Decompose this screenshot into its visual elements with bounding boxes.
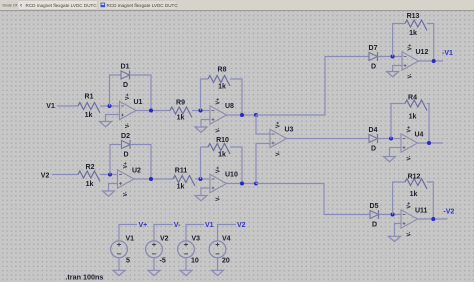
svg-text:V-: V- bbox=[408, 73, 414, 78]
op-amp U12 bbox=[402, 44, 428, 79]
wire D2 cathode down to U2 output bbox=[130, 145, 151, 180]
wire D4 cathode to U4 inverting input bbox=[378, 138, 402, 140]
svg-text:1k: 1k bbox=[177, 115, 185, 122]
op-amp U1 bbox=[120, 94, 143, 129]
junction node U8 summing node bbox=[199, 109, 203, 113]
svg-text:V1: V1 bbox=[46, 103, 55, 110]
op-amp U8 bbox=[210, 98, 234, 133]
svg-text:V1: V1 bbox=[205, 222, 214, 229]
junction node U4 summing node bbox=[389, 137, 393, 141]
svg-text:RCD magnet flexgate LVDC DUTC: RCD magnet flexgate LVDC DUTC bbox=[26, 3, 98, 8]
svg-text:5: 5 bbox=[126, 258, 130, 265]
wire V1 input to R1 bbox=[57, 105, 78, 107]
wire R13 to U12 output node bbox=[427, 24, 434, 62]
tab 2: RCD magnet flexgate LVDC DUTC bbox=[99, 1, 179, 10]
wire R2 to U2 inverting input bbox=[100, 174, 118, 176]
svg-text:R8: R8 bbox=[218, 67, 227, 74]
svg-text:V+: V+ bbox=[407, 202, 413, 209]
svg-text:D4: D4 bbox=[369, 127, 378, 134]
svg-text:.tran 100ns: .tran 100ns bbox=[65, 272, 103, 281]
svg-text:Diode OP: Diode OP bbox=[3, 3, 19, 7]
svg-text:R10: R10 bbox=[216, 137, 229, 144]
svg-text:V+: V+ bbox=[407, 126, 413, 133]
wire V2 source to ground bbox=[153, 258, 155, 271]
svg-text:U11: U11 bbox=[415, 208, 428, 215]
svg-text:R4: R4 bbox=[408, 95, 417, 102]
svg-text:‹: ‹ bbox=[20, 2, 22, 9]
junction node U12 summing node bbox=[391, 55, 395, 59]
ground at U11 input bbox=[389, 236, 401, 241]
wire U2 non-inverting input to ground bbox=[109, 184, 118, 192]
svg-text:R11: R11 bbox=[175, 168, 188, 175]
wire summing node up to D2 anode bbox=[110, 145, 122, 175]
svg-text:1k: 1k bbox=[85, 112, 93, 119]
junction node U11 summing node bbox=[391, 213, 395, 217]
junction node U10 output node bbox=[240, 182, 244, 186]
diode D4 (D) bbox=[369, 127, 378, 153]
diode D7 (D) bbox=[369, 45, 378, 71]
wire D5 cathode to U11 inverting input bbox=[379, 214, 402, 216]
junction node U10 summing node bbox=[199, 177, 203, 181]
resistor R1 (1k) bbox=[78, 94, 100, 120]
svg-text:-5: -5 bbox=[160, 258, 166, 265]
wire U1 non-inverting input to ground bbox=[106, 115, 120, 122]
svg-text:R9: R9 bbox=[176, 100, 185, 107]
op-amp U3 bbox=[270, 122, 294, 157]
junction node U10 output branch bbox=[254, 182, 258, 186]
svg-text:D: D bbox=[371, 146, 376, 153]
svg-text:U10: U10 bbox=[225, 172, 238, 179]
wire V4 source to V2 label bbox=[218, 225, 237, 241]
wire D7 cathode to U12 inverting input bbox=[378, 56, 403, 58]
ground at U2 input bbox=[103, 191, 115, 196]
svg-text:V+: V+ bbox=[123, 162, 129, 169]
resistor R11 (1k) bbox=[173, 168, 195, 191]
wire V1 source to V+ label bbox=[119, 225, 137, 241]
svg-text:1k: 1k bbox=[218, 152, 226, 159]
wire U2 output to R11 bbox=[134, 178, 173, 180]
svg-text:20: 20 bbox=[222, 258, 230, 265]
svg-text:1k: 1k bbox=[409, 30, 417, 37]
wire U8 output to D7 anode bbox=[256, 57, 369, 116]
junction node U11 output node bbox=[431, 217, 435, 221]
svg-text:D: D bbox=[123, 82, 128, 89]
voltage source V1 (5V) bbox=[111, 235, 135, 264]
voltage source V2 (-5V) bbox=[146, 235, 169, 264]
svg-text:U12: U12 bbox=[416, 49, 429, 56]
ground under source V2 bbox=[148, 270, 160, 275]
wire U3 output to D4 anode bbox=[287, 138, 370, 140]
svg-text:D: D bbox=[372, 222, 377, 229]
wire U10 non-inverting input to ground bbox=[201, 188, 210, 196]
wire U10 output bbox=[227, 183, 257, 185]
junction node U1 summing node bbox=[108, 104, 112, 108]
resistor R2 (1k) bbox=[78, 164, 100, 188]
ground at U8 input bbox=[195, 127, 207, 132]
svg-text:V+: V+ bbox=[276, 122, 282, 129]
wire U11 output bbox=[418, 218, 448, 220]
junction node U8 output node bbox=[240, 113, 244, 117]
svg-text:V-: V- bbox=[407, 231, 413, 236]
junction node U12 output node bbox=[432, 59, 436, 63]
diode D1 (D) bbox=[121, 64, 130, 90]
svg-text:V-: V- bbox=[407, 155, 413, 160]
wire V1 source to ground bbox=[118, 258, 120, 271]
svg-text:1k: 1k bbox=[86, 181, 94, 188]
svg-text:10: 10 bbox=[191, 258, 199, 265]
ground at U1 input bbox=[100, 122, 112, 127]
svg-text:U2: U2 bbox=[132, 168, 141, 175]
wire U12 non-inverting input to ground bbox=[393, 66, 402, 72]
wire U4 non-inverting input to ground bbox=[390, 148, 402, 157]
svg-text:1k: 1k bbox=[177, 184, 185, 191]
junction node U8 output branch bbox=[254, 113, 258, 117]
svg-text:D5: D5 bbox=[370, 203, 379, 210]
svg-text:V1: V1 bbox=[126, 235, 135, 242]
svg-text:V+: V+ bbox=[139, 222, 148, 229]
wire V4 source to ground bbox=[217, 258, 219, 271]
ground under source V3 bbox=[180, 270, 192, 275]
resistor R12 (1k) bbox=[405, 174, 427, 199]
svg-text:D1: D1 bbox=[121, 64, 130, 71]
wire R9 to U8 inverting input bbox=[192, 110, 210, 112]
svg-text:D2: D2 bbox=[121, 133, 130, 140]
svg-text:V2: V2 bbox=[41, 173, 50, 180]
svg-text:U4: U4 bbox=[415, 132, 424, 139]
wire U8 output bbox=[227, 114, 257, 116]
svg-text:U8: U8 bbox=[225, 103, 234, 110]
wire R1 to U1 inverting input bbox=[100, 105, 120, 107]
wire U4 output bbox=[418, 142, 444, 144]
window tab bar bbox=[0, 0, 474, 11]
wire summing node up to R8 bbox=[201, 79, 209, 111]
svg-text:D: D bbox=[371, 64, 376, 71]
resistor R8 (1k) bbox=[208, 67, 230, 91]
svg-text:R2: R2 bbox=[86, 164, 95, 171]
diode D2 (D) bbox=[121, 133, 130, 159]
voltage source V4 (20V) bbox=[209, 235, 231, 264]
svg-text:V2: V2 bbox=[237, 222, 246, 229]
svg-text:V3: V3 bbox=[192, 235, 201, 242]
resistor R10 (1k) bbox=[208, 137, 230, 159]
wire summing node up to R13 bbox=[393, 24, 405, 57]
wire R8 to U8 output node bbox=[230, 79, 242, 115]
wire V2 source to V- label bbox=[154, 225, 173, 241]
wire summing node up to R12 bbox=[393, 182, 405, 215]
voltage source V3 (10V) bbox=[178, 235, 201, 264]
wire summing node up to D1 anode bbox=[110, 75, 122, 106]
svg-text:V-: V- bbox=[125, 123, 131, 128]
svg-text:U1: U1 bbox=[134, 99, 143, 106]
wire U10 branch up to U3 lower input bbox=[256, 144, 270, 184]
svg-text:-V1: -V1 bbox=[442, 50, 453, 57]
ground at U4 input bbox=[384, 157, 396, 162]
wire summing node up to R4 bbox=[391, 104, 405, 139]
svg-text:V4: V4 bbox=[222, 235, 231, 242]
svg-text:-V2: -V2 bbox=[443, 209, 454, 216]
svg-text:V+: V+ bbox=[125, 94, 131, 101]
tab 1: RCD magnet flexgate LVDC DUTC bbox=[18, 1, 98, 10]
resistor R13 (1k) bbox=[405, 13, 427, 37]
wire R10 to U10 output node bbox=[230, 147, 242, 184]
diode D5 (D) bbox=[370, 203, 379, 229]
wire summing node up to R10 bbox=[201, 147, 209, 179]
svg-text:V+: V+ bbox=[408, 44, 414, 51]
wire U8 branch down to U3 upper input bbox=[256, 115, 270, 134]
svg-text:V-: V- bbox=[276, 151, 282, 156]
resistor R9 (1k) bbox=[170, 100, 192, 122]
wire R11 to U10 inverting input bbox=[195, 178, 210, 180]
wire V3 source to ground bbox=[185, 258, 187, 271]
wire R12 to U11 output node bbox=[427, 182, 433, 219]
svg-text:V-: V- bbox=[216, 127, 222, 132]
wire D1 cathode down to U1 output bbox=[130, 75, 152, 111]
wire U11 non-inverting input to ground bbox=[395, 224, 402, 237]
wire U12 output bbox=[419, 60, 444, 62]
wire U10 output to D5 anode bbox=[256, 184, 370, 215]
junction node U2 summing node bbox=[108, 173, 112, 177]
wire V2 input to R2 bbox=[52, 174, 78, 176]
svg-text:D7: D7 bbox=[369, 45, 378, 52]
svg-text:1k: 1k bbox=[409, 114, 417, 121]
ground under source V4 bbox=[212, 270, 224, 275]
wire V3 source to V1 label bbox=[186, 225, 204, 241]
svg-text:1k: 1k bbox=[410, 191, 418, 198]
wire U1 output to R9 bbox=[136, 110, 170, 112]
svg-text:V2: V2 bbox=[160, 235, 169, 242]
op-amp U11 bbox=[401, 202, 428, 237]
ground under source V1 bbox=[113, 270, 125, 275]
svg-text:R1: R1 bbox=[85, 94, 94, 101]
ground at U12 input bbox=[387, 72, 399, 77]
svg-text:1k: 1k bbox=[218, 84, 226, 91]
svg-text:V+: V+ bbox=[216, 167, 222, 174]
resistor R4 (1k) bbox=[405, 95, 427, 121]
svg-text:V-: V- bbox=[174, 222, 181, 229]
svg-text:RCD magnet flexgate LVDC DUTC: RCD magnet flexgate LVDC DUTC bbox=[107, 3, 179, 8]
op-amp U4 bbox=[401, 126, 424, 161]
op-amp U10 bbox=[210, 167, 238, 202]
svg-text:U3: U3 bbox=[285, 127, 294, 134]
svg-text:V-: V- bbox=[123, 191, 129, 196]
wire U8 non-inverting input to ground bbox=[201, 120, 210, 128]
svg-text:R13: R13 bbox=[407, 13, 420, 20]
wire R4 to U4 output node bbox=[427, 104, 429, 144]
junction node U4 output node bbox=[427, 141, 431, 145]
ground at U10 input bbox=[195, 196, 207, 201]
op-amp U2 bbox=[118, 162, 142, 197]
svg-text:V-: V- bbox=[216, 196, 222, 201]
svg-text:R12: R12 bbox=[408, 174, 421, 181]
svg-text:V+: V+ bbox=[216, 98, 222, 105]
svg-text:D: D bbox=[123, 152, 128, 159]
junction node U1 output node bbox=[149, 109, 153, 113]
junction node U2 output node bbox=[149, 177, 153, 181]
